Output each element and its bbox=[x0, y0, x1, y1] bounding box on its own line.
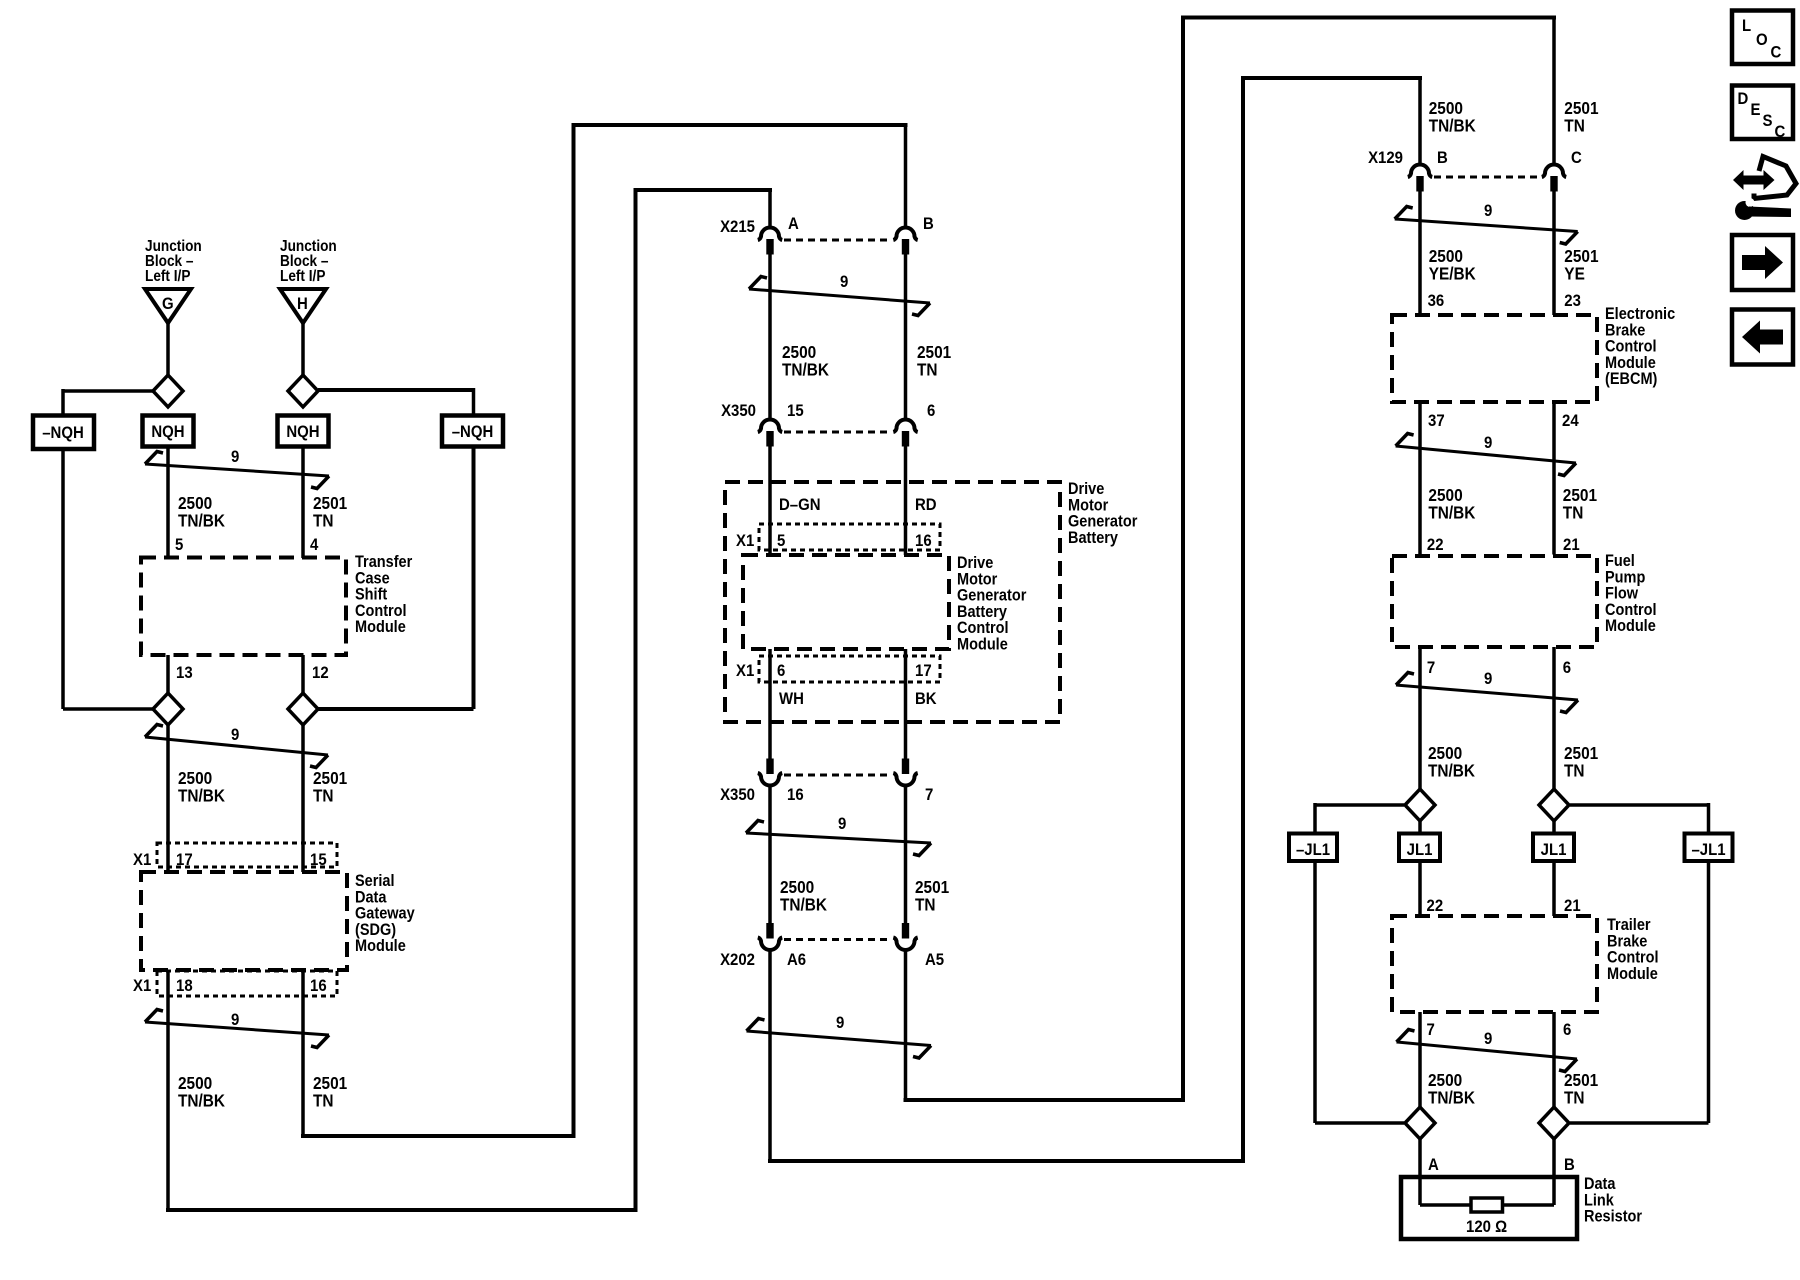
bus wire 2501 riser to X215 B bbox=[572, 123, 576, 1136]
svg-text:6: 6 bbox=[777, 662, 785, 680]
svg-text:6: 6 bbox=[927, 402, 935, 420]
svg-text:22: 22 bbox=[1427, 536, 1444, 554]
connector X215 dashed link bbox=[784, 239, 892, 242]
connector X350 terminal 15 bbox=[758, 420, 782, 433]
twisted pair symbol 9 (FPFCM) bbox=[1396, 673, 1578, 713]
Drive Motor Generator Battery Control Module box bbox=[743, 555, 949, 649]
wire X350 16 down to X202 A6 bbox=[768, 786, 772, 924]
svg-text:–JL1: –JL1 bbox=[1296, 841, 1330, 859]
splice diamond S4 bbox=[288, 693, 318, 725]
connector X1 (SDG bottom) bbox=[157, 971, 337, 996]
connector X129 terminal B bbox=[1408, 165, 1432, 178]
svg-text:22: 22 bbox=[1427, 897, 1444, 915]
svg-text:23: 23 bbox=[1564, 292, 1581, 310]
svg-text:7: 7 bbox=[1427, 659, 1435, 677]
wire FPFCM 7 down to splice bbox=[1418, 647, 1422, 790]
svg-text:S: S bbox=[1763, 112, 1773, 130]
connector X350 terminal 7 (lower) bbox=[893, 773, 917, 786]
Serial Data Gateway (SDG) Module box bbox=[141, 872, 347, 970]
svg-text:A5: A5 bbox=[925, 951, 944, 969]
svg-text:13: 13 bbox=[176, 664, 193, 682]
svg-text:37: 37 bbox=[1428, 412, 1445, 430]
wire -NQH left down to splice S3 bbox=[61, 449, 65, 709]
svg-text:–NQH: –NQH bbox=[42, 424, 84, 442]
svg-text:C: C bbox=[1771, 44, 1782, 62]
fuse -JL1 (far left) bbox=[1289, 834, 1337, 862]
Fuel Pump Flow Control Module box bbox=[1392, 556, 1597, 647]
wire EBCM 24 down to FPFCM 21 bbox=[1552, 402, 1556, 555]
junction block terminal H (triangle) bbox=[280, 289, 326, 323]
svg-text:15: 15 bbox=[310, 851, 327, 869]
splice diamond S8 bbox=[1539, 1107, 1569, 1139]
connector X129 dashed link bbox=[1434, 176, 1540, 179]
svg-text:7: 7 bbox=[1427, 1021, 1435, 1039]
svg-text:9: 9 bbox=[836, 1014, 844, 1032]
wire X202 A5 down and right to right section (2501) bbox=[904, 951, 908, 1101]
twisted pair symbol 9 (X129) bbox=[1395, 207, 1578, 245]
connector X215 terminal B bbox=[893, 228, 917, 241]
icon schematic navigation (arrows and wrench) bbox=[1733, 170, 1775, 190]
wire G triangle to splice bbox=[166, 323, 170, 376]
svg-text:WH: WH bbox=[779, 690, 804, 708]
svg-text:C: C bbox=[1571, 149, 1582, 167]
svg-text:RD: RD bbox=[915, 496, 937, 514]
svg-text:16: 16 bbox=[310, 977, 327, 995]
svg-text:120 Ω: 120 Ω bbox=[1466, 1218, 1507, 1236]
svg-text:16: 16 bbox=[915, 532, 932, 550]
svg-text:D–GN: D–GN bbox=[779, 496, 821, 514]
svg-text:16: 16 bbox=[787, 786, 804, 804]
wire splice S5 to JL1 bbox=[1418, 821, 1422, 834]
wire X129 B down to EBCM 36 bbox=[1418, 191, 1422, 315]
wire splice S3 down to SDG pin 17 bbox=[166, 725, 170, 872]
Drive Motor Generator Battery outer box bbox=[725, 482, 1060, 722]
connector X1 (SDG top) bbox=[157, 843, 337, 867]
wire splice S6 to JL1 bbox=[1552, 821, 1556, 834]
wire SDG pin 16 down and right to middle section bbox=[301, 970, 305, 1136]
wire splice S2 right branch to -NQH bbox=[318, 388, 474, 392]
svg-text:G: G bbox=[162, 295, 174, 313]
Electronic Brake Control Module (EBCM) box bbox=[1392, 315, 1597, 402]
splice diamond S1 bbox=[153, 375, 183, 407]
svg-text:X350: X350 bbox=[721, 402, 756, 420]
wire module pin 17 down to X350 7 bbox=[904, 649, 908, 760]
svg-text:X1: X1 bbox=[736, 662, 754, 680]
svg-text:21: 21 bbox=[1563, 536, 1580, 554]
wire X350 7 down to X202 A5 bbox=[904, 786, 908, 924]
icon arrow left bbox=[1732, 310, 1793, 365]
wire H triangle to splice bbox=[301, 323, 305, 376]
svg-text:36: 36 bbox=[1428, 292, 1445, 310]
svg-text:9: 9 bbox=[1484, 1030, 1492, 1048]
connector X202 terminal A5 bbox=[893, 938, 917, 951]
svg-text:6: 6 bbox=[1563, 659, 1571, 677]
icon DESC bbox=[1732, 86, 1793, 140]
svg-text:9: 9 bbox=[1484, 202, 1492, 220]
connector X350 dashed link bbox=[784, 431, 892, 434]
connector X350 lower dashed link bbox=[784, 774, 892, 777]
svg-text:JL1: JL1 bbox=[1407, 841, 1433, 859]
svg-text:NQH: NQH bbox=[151, 423, 184, 441]
connector X215 terminal A bbox=[758, 228, 782, 241]
twisted pair symbol 9 (lower left) bbox=[145, 1010, 329, 1048]
wire splice S7 down to resistor bbox=[1418, 1139, 1422, 1205]
svg-text:9: 9 bbox=[840, 273, 848, 291]
svg-text:9: 9 bbox=[1484, 670, 1492, 688]
bus wire 2500 riser to X129 B bbox=[1241, 78, 1245, 1161]
svg-text:O: O bbox=[1756, 31, 1768, 49]
splice diamond S3 bbox=[153, 693, 183, 725]
twisted pair symbol 9 (TBCM) bbox=[1397, 1030, 1578, 1072]
svg-text:X1: X1 bbox=[133, 977, 151, 995]
svg-text:7: 7 bbox=[925, 786, 933, 804]
fuse NQH (right) bbox=[278, 416, 329, 447]
junction block terminal G (triangle) bbox=[145, 289, 191, 323]
svg-text:9: 9 bbox=[231, 448, 239, 466]
wire splice S4 down to SDG pin 15 bbox=[301, 725, 305, 872]
connector X1 (battery module bottom) bbox=[759, 656, 940, 682]
fuse JL1 (right) bbox=[1533, 834, 1574, 862]
wire X215 A to X350 15 bbox=[768, 254, 772, 419]
svg-text:X350: X350 bbox=[720, 786, 755, 804]
connector X202 dashed link bbox=[784, 938, 892, 941]
svg-text:D: D bbox=[1738, 90, 1749, 108]
wire SDG pin 18 down and right to middle section bbox=[166, 970, 170, 1210]
wire -JL1 left down to splice S7 bbox=[1313, 861, 1317, 1123]
svg-text:H: H bbox=[297, 295, 308, 313]
connector X350 terminal 6 bbox=[893, 420, 917, 433]
svg-text:12: 12 bbox=[312, 664, 329, 682]
wire TBCM 6 down to splice bbox=[1552, 1012, 1556, 1107]
twisted pair symbol 9 (mid left) bbox=[145, 725, 328, 768]
Data Link Resistor box bbox=[1401, 1177, 1577, 1239]
svg-text:9: 9 bbox=[231, 726, 239, 744]
wire EBCM 37 down to FPFCM 22 bbox=[1418, 402, 1422, 555]
svg-text:B: B bbox=[1564, 1156, 1575, 1174]
icon LOC bbox=[1732, 11, 1793, 65]
svg-text:L: L bbox=[1742, 17, 1751, 35]
twisted pair symbol 9 (X350 lower) bbox=[746, 821, 931, 856]
wire JL1 left down to TBCM 22 bbox=[1418, 861, 1422, 916]
svg-text:9: 9 bbox=[231, 1011, 239, 1029]
fuse NQH (left) bbox=[143, 416, 194, 447]
fuse -JL1 (far right) bbox=[1685, 834, 1733, 862]
resistor element 120 ohm bbox=[1420, 1203, 1471, 1207]
svg-text:18: 18 bbox=[176, 977, 193, 995]
wire splice S6 right branch to -JL1 bbox=[1570, 803, 1709, 807]
svg-text:4: 4 bbox=[310, 536, 318, 554]
svg-text:9: 9 bbox=[1484, 434, 1492, 452]
svg-text:X202: X202 bbox=[720, 951, 755, 969]
svg-text:6: 6 bbox=[1563, 1021, 1571, 1039]
svg-text:E: E bbox=[1751, 101, 1761, 119]
wire splice S5 left branch to -JL1 bbox=[1315, 803, 1404, 807]
svg-text:17: 17 bbox=[176, 851, 193, 869]
wire -NQH right down to splice S4 bbox=[472, 447, 476, 710]
wire splice S8 down to resistor bbox=[1552, 1139, 1556, 1205]
svg-text:X1: X1 bbox=[736, 532, 754, 550]
wire X350 15 down into battery box bbox=[768, 446, 772, 555]
connector X202 terminal A6 bbox=[758, 938, 782, 951]
wire TBCM 7 down to splice bbox=[1418, 1012, 1422, 1107]
svg-text:–NQH: –NQH bbox=[452, 423, 494, 441]
wire JL1 right down to TBCM 21 bbox=[1552, 861, 1556, 916]
splice diamond S5 bbox=[1405, 789, 1435, 821]
wire X129 C down to EBCM 23 bbox=[1552, 191, 1556, 315]
twisted pair symbol 9 (upper left) bbox=[145, 452, 329, 489]
fuse -NQH (right) bbox=[442, 416, 503, 447]
wire FPFCM 6 down to splice bbox=[1552, 647, 1556, 790]
wire -JL1 right down to splice S8 bbox=[1707, 861, 1711, 1123]
fuse -NQH (left) bbox=[33, 416, 94, 450]
svg-text:A6: A6 bbox=[787, 951, 806, 969]
svg-text:C: C bbox=[1775, 123, 1786, 141]
svg-text:JL1: JL1 bbox=[1541, 841, 1567, 859]
twisted pair symbol 9 (X215) bbox=[749, 277, 930, 316]
connector X1 (battery module top) bbox=[759, 524, 940, 550]
connector X129 terminal C bbox=[1542, 165, 1566, 178]
wire module pin 13 to splice S3 bbox=[166, 655, 170, 694]
svg-text:B: B bbox=[1437, 149, 1448, 167]
svg-text:21: 21 bbox=[1564, 897, 1581, 915]
icon arrow right bbox=[1732, 235, 1793, 290]
svg-text:17: 17 bbox=[915, 662, 932, 680]
wire module pin 12 to splice S4 bbox=[301, 655, 305, 694]
wire X215 B to X350 6 bbox=[904, 254, 908, 419]
svg-text:5: 5 bbox=[777, 532, 785, 550]
svg-text:X129: X129 bbox=[1368, 149, 1403, 167]
svg-text:B: B bbox=[923, 215, 934, 233]
splice diamond S6 bbox=[1539, 789, 1569, 821]
fuse JL1 (left) bbox=[1399, 834, 1440, 862]
bus wire 2501 riser to X129 C bbox=[1181, 18, 1185, 1101]
splice diamond S2 bbox=[288, 375, 318, 407]
svg-text:X215: X215 bbox=[720, 218, 755, 236]
svg-text:15: 15 bbox=[787, 402, 804, 420]
svg-text:–JL1: –JL1 bbox=[1691, 841, 1725, 859]
wire X202 A6 down and right to right section (2500) bbox=[768, 951, 772, 1162]
wire splice S1 left branch to -NQH bbox=[63, 389, 153, 393]
wire module pin 6 down to X350 16 bbox=[768, 649, 772, 760]
wire NQH right down to module pin 4 bbox=[301, 447, 305, 559]
svg-text:9: 9 bbox=[838, 815, 846, 833]
twisted pair symbol 9 (EBCM) bbox=[1396, 434, 1576, 476]
wire NQH left down to module pin 5 bbox=[166, 447, 170, 559]
bus wire 2500 riser to X215 A bbox=[634, 188, 638, 1210]
svg-text:A: A bbox=[788, 215, 799, 233]
Trailer Brake Control Module box bbox=[1392, 916, 1597, 1012]
svg-text:X1: X1 bbox=[133, 851, 151, 869]
Transfer Case Shift Control Module box bbox=[141, 558, 346, 656]
twisted pair symbol 9 (X202) bbox=[747, 1019, 932, 1059]
svg-text:NQH: NQH bbox=[286, 423, 319, 441]
svg-text:24: 24 bbox=[1562, 412, 1579, 430]
svg-text:A: A bbox=[1428, 1156, 1439, 1174]
svg-text:5: 5 bbox=[175, 536, 183, 554]
wire X350 6 down into battery box bbox=[904, 446, 908, 555]
svg-text:BK: BK bbox=[915, 690, 937, 708]
splice diamond S7 bbox=[1405, 1107, 1435, 1139]
connector X350 terminal 16 (lower) bbox=[758, 773, 782, 786]
